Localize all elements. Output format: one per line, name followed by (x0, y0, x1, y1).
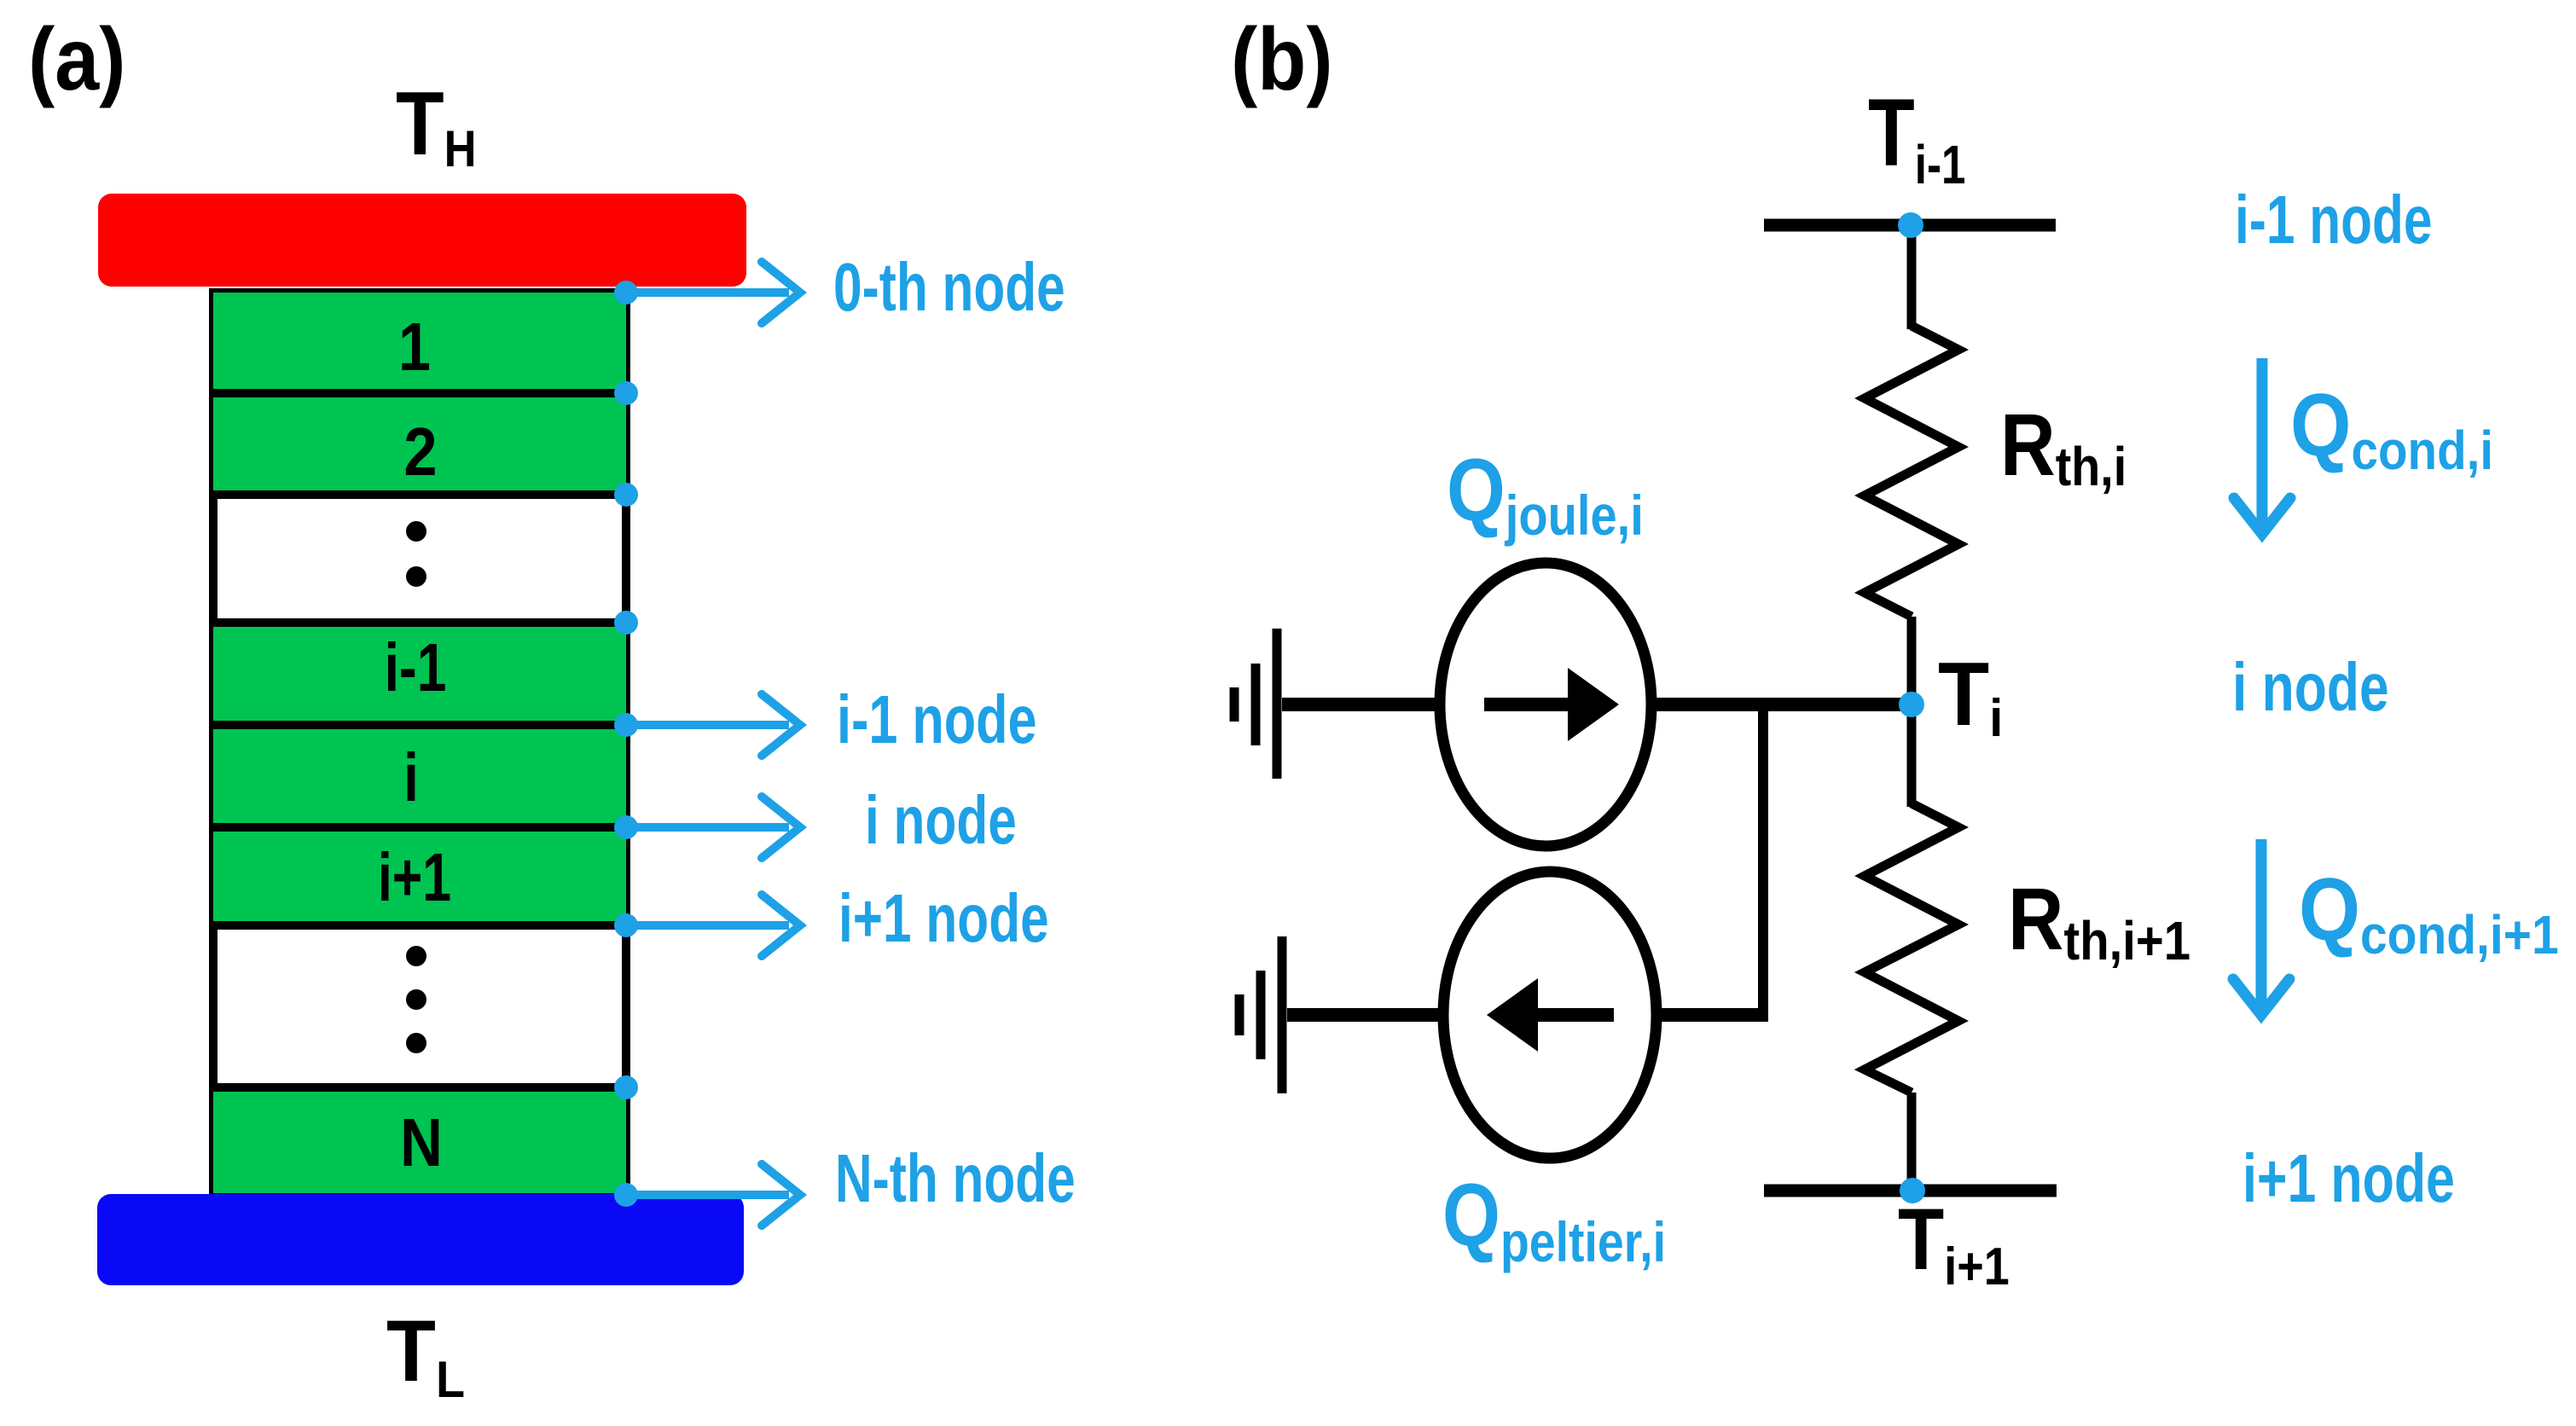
layer i (213, 725, 626, 827)
arrow 0-th node (626, 262, 800, 323)
layer boundary line i+1/dots (209, 921, 630, 930)
cold plate TL (blue bar) (97, 1194, 744, 1285)
current arrow inside Qpeltier,i (1535, 1008, 1614, 1022)
layer boundary line 1/2 (209, 389, 630, 397)
node dot at y=1401 (614, 1183, 638, 1207)
svg-text:i+1 node: i+1 node (2242, 1141, 2455, 1217)
wire ground G2 to Qpeltier,i (1287, 1008, 1445, 1022)
svg-text:Qpeltier,i: Qpeltier,i (1442, 1166, 1666, 1273)
svg-text:2: 2 (403, 414, 437, 490)
layer boundary line dots/N (209, 1083, 630, 1092)
node dot at y=850 (614, 713, 638, 737)
node dot Ti-1 (1898, 212, 1923, 238)
layer boundary line dots/i-1 (209, 618, 630, 627)
ground G2 (1239, 936, 1282, 1093)
svg-text:(b): (b) (1231, 9, 1332, 108)
svg-text:N: N (400, 1104, 443, 1180)
svg-text:N-th node: N-th node (835, 1141, 1076, 1217)
svg-text:(a): (a) (28, 9, 125, 108)
current arrow inside Qjoule,i (1484, 698, 1574, 711)
node dot at y=1085 (614, 913, 638, 937)
resistor Rth,i+1 (1865, 803, 1958, 1093)
heat flow arrow Qcond,i (2234, 358, 2290, 534)
node dot at y=1275 (614, 1075, 638, 1099)
wire ground G1 to Qjoule,i (1282, 698, 1443, 711)
current source Qpeltier,i (1443, 872, 1656, 1158)
wire resistor Rth,i+1 to node line i+1 (1907, 1093, 1917, 1191)
arrow N-th node (626, 1164, 800, 1226)
svg-text:Qjoule,i: Qjoule,i (1447, 441, 1644, 547)
layer boundary line i/i+1 (209, 823, 630, 832)
svg-text:Ti+1: Ti+1 (1898, 1191, 2010, 1296)
ellipsis dots lower (406, 946, 426, 966)
ellipsis dots upper (406, 521, 426, 542)
svg-text:i: i (403, 739, 419, 815)
node dot at y=580 (614, 483, 638, 507)
layer i+1 (213, 827, 626, 925)
current source Qjoule,i (1440, 563, 1651, 846)
svg-text:Ti: Ti (1938, 643, 2003, 748)
node line i+1 (1764, 1185, 2057, 1197)
svg-text:1: 1 (398, 309, 431, 385)
svg-text:Rth,i: Rth,i (2000, 397, 2126, 497)
svg-text:Ti-1: Ti-1 (1868, 80, 1965, 196)
wire Qpeltier,i to junction (1655, 1008, 1768, 1022)
stack outline (213, 293, 626, 1193)
layer N (213, 1087, 626, 1193)
svg-text:TH: TH (396, 73, 477, 177)
wire node i-1 to resistor Rth,i (1907, 225, 1917, 329)
svg-text:i-1: i-1 (385, 630, 447, 706)
wire Qjoule,i to node Ti (1651, 698, 1912, 711)
heat flow arrow Qcond,i+1 (2233, 839, 2289, 1015)
node dot at y=970 (614, 815, 638, 839)
svg-text:TL: TL (386, 1302, 465, 1409)
svg-text:Rth,i+1: Rth,i+1 (2008, 870, 2190, 971)
node line i-1 (1764, 219, 2056, 232)
node dot Ti+1 (1900, 1178, 1925, 1203)
svg-text:Qcond,i: Qcond,i (2290, 375, 2493, 481)
wire junction down to Qpeltier,i output (1758, 704, 1768, 1020)
svg-text:Qcond,i+1: Qcond,i+1 (2299, 860, 2559, 965)
svg-text:i+1 node: i+1 node (838, 881, 1049, 957)
node dot Ti (1899, 692, 1924, 717)
hot plate TH (red bar) (98, 194, 746, 287)
arrow i+1 node (626, 895, 800, 956)
resistor Rth,i (1865, 326, 1958, 617)
layer 1 (213, 293, 626, 393)
node dot at y=730 (614, 611, 638, 635)
arrow i-1 node (626, 694, 800, 756)
node dot at y=343 (614, 281, 638, 304)
svg-text:i-1 node: i-1 node (837, 682, 1037, 758)
node dot at y=461 (614, 381, 638, 405)
layer 2 (213, 393, 626, 495)
ground G1 (1234, 629, 1277, 779)
wire resistor Rth,i to node Ti (1907, 617, 1917, 807)
svg-text:i node: i node (2232, 650, 2389, 726)
svg-text:0-th node: 0-th node (833, 250, 1065, 326)
svg-text:i+1: i+1 (378, 840, 451, 916)
arrow i node (626, 797, 800, 858)
layer boundary line 2/dots (209, 490, 630, 499)
svg-text:i node: i node (865, 783, 1017, 859)
layer boundary line i-1/i (209, 721, 630, 729)
svg-text:i-1 node: i-1 node (2235, 183, 2433, 258)
layer i-1 (213, 623, 626, 725)
